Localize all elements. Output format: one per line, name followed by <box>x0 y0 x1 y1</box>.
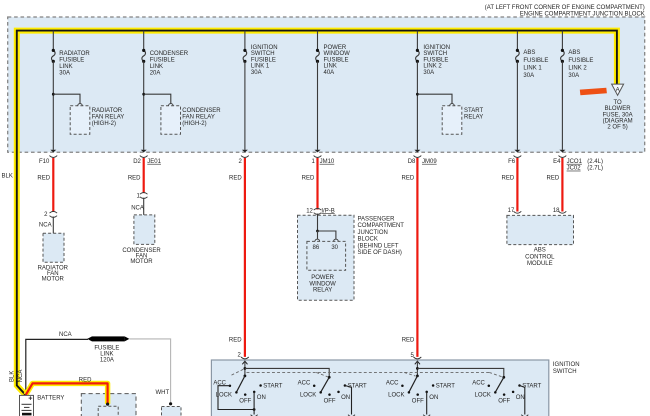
svg-text:(HIGH-2): (HIGH-2) <box>182 121 206 127</box>
svg-text:2: 2 <box>238 353 242 359</box>
svg-text:FUSE, 30A: FUSE, 30A <box>603 112 633 118</box>
svg-text:RED: RED <box>302 175 315 181</box>
svg-text:FUSIBLE: FUSIBLE <box>150 57 175 63</box>
svg-text:RED: RED <box>502 175 515 181</box>
svg-text:TO: TO <box>613 100 622 106</box>
svg-text:POWER: POWER <box>311 275 334 281</box>
svg-text:D2: D2 <box>133 159 141 165</box>
svg-text:1: 1 <box>136 194 140 200</box>
svg-text:CONDENSER: CONDENSER <box>150 51 189 57</box>
svg-text:JCO1: JCO1 <box>567 159 583 165</box>
svg-text:ABS: ABS <box>568 50 580 56</box>
svg-text:F6: F6 <box>508 159 516 165</box>
svg-text:LOCK: LOCK <box>475 392 491 398</box>
svg-text:E4: E4 <box>553 159 561 165</box>
svg-text:RED: RED <box>547 175 560 181</box>
svg-text:(BEHIND LEFT: (BEHIND LEFT <box>358 243 399 249</box>
svg-text:POWER: POWER <box>324 45 347 51</box>
svg-text:(HIGH-2): (HIGH-2) <box>92 121 116 127</box>
svg-text:BLK: BLK <box>9 371 15 382</box>
svg-text:2: 2 <box>44 212 48 218</box>
svg-text:FAN RELAY: FAN RELAY <box>182 114 215 120</box>
svg-text:ACC: ACC <box>472 380 485 386</box>
svg-text:LINK 2: LINK 2 <box>568 65 587 71</box>
svg-text:FUSIBLE: FUSIBLE <box>568 58 593 64</box>
svg-text:WHT: WHT <box>156 390 170 396</box>
svg-text:JUNCTION: JUNCTION <box>358 230 388 236</box>
svg-text:JE01: JE01 <box>147 159 161 165</box>
svg-text:RED: RED <box>402 175 415 181</box>
svg-text:(2.7L): (2.7L) <box>587 166 603 172</box>
svg-text:RED: RED <box>79 377 92 383</box>
svg-text:D8: D8 <box>408 159 416 165</box>
svg-text:ON: ON <box>516 395 525 401</box>
svg-text:RED: RED <box>402 338 415 344</box>
svg-text:A: A <box>616 87 620 93</box>
svg-text:I/P-B: I/P-B <box>321 208 334 214</box>
svg-text:LINK 1: LINK 1 <box>251 64 270 70</box>
svg-text:ACC: ACC <box>386 380 399 386</box>
svg-text:18: 18 <box>553 208 560 214</box>
svg-text:FUSIBLE: FUSIBLE <box>251 57 276 63</box>
svg-text:NCA: NCA <box>39 223 52 229</box>
svg-text:SIDE OF DASH): SIDE OF DASH) <box>358 250 402 256</box>
svg-text:RELAY: RELAY <box>464 114 483 120</box>
svg-text:(DIAGRAM: (DIAGRAM <box>603 119 633 125</box>
svg-text:LINK 1: LINK 1 <box>523 65 542 71</box>
svg-text:LINK: LINK <box>150 64 163 70</box>
svg-text:ABS: ABS <box>523 50 535 56</box>
svg-text:BATTERY: BATTERY <box>37 396 64 402</box>
svg-text:CONTROL: CONTROL <box>525 254 555 260</box>
svg-text:BLOCK: BLOCK <box>358 237 378 243</box>
svg-text:MODULE: MODULE <box>527 261 553 267</box>
svg-text:SWITCH: SWITCH <box>251 51 275 57</box>
svg-text:OFF: OFF <box>324 398 336 404</box>
svg-text:ABS: ABS <box>534 248 546 254</box>
svg-text:NCA: NCA <box>131 205 144 211</box>
svg-text:WINDOW: WINDOW <box>324 51 351 57</box>
svg-text:LOCK: LOCK <box>300 392 316 398</box>
svg-text:SWITCH: SWITCH <box>423 51 447 57</box>
svg-text:PASSENGER: PASSENGER <box>358 217 396 223</box>
svg-text:(2.4L): (2.4L) <box>587 159 603 165</box>
svg-text:2: 2 <box>239 159 243 165</box>
svg-text:START: START <box>348 383 367 389</box>
svg-text:IGNITION: IGNITION <box>251 45 278 51</box>
svg-text:86: 86 <box>313 245 320 251</box>
svg-text:BLK: BLK <box>2 173 13 179</box>
svg-text:ON: ON <box>341 395 350 401</box>
svg-text:ENGINE COMPARTMENT JUNCTION BL: ENGINE COMPARTMENT JUNCTION BLOCK <box>520 11 645 17</box>
svg-text:120A: 120A <box>100 358 114 364</box>
svg-text:30A: 30A <box>568 73 579 79</box>
svg-text:30A: 30A <box>251 70 262 76</box>
svg-text:BLOWER: BLOWER <box>605 106 632 112</box>
svg-text:FAN RELAY: FAN RELAY <box>92 114 125 120</box>
svg-text:RED: RED <box>128 175 141 181</box>
svg-text:17: 17 <box>508 208 515 214</box>
svg-text:ACC: ACC <box>298 380 311 386</box>
svg-text:LINK 2: LINK 2 <box>423 64 442 70</box>
svg-text:30A: 30A <box>59 70 70 76</box>
svg-text:12: 12 <box>306 208 313 214</box>
svg-text:RED: RED <box>229 338 242 344</box>
svg-text:30A: 30A <box>523 73 534 79</box>
svg-text:SWITCH: SWITCH <box>553 369 577 375</box>
svg-text:START: START <box>464 108 483 114</box>
svg-text:COMPARTMENT: COMPARTMENT <box>358 223 405 229</box>
svg-text:LOCK: LOCK <box>388 392 404 398</box>
svg-text:2 OF 5): 2 OF 5) <box>607 125 627 131</box>
svg-text:RED: RED <box>229 175 242 181</box>
svg-text:FUSIBLE: FUSIBLE <box>423 57 448 63</box>
svg-text:NCA: NCA <box>18 370 24 383</box>
svg-text:OFF: OFF <box>239 398 251 404</box>
svg-text:JC02: JC02 <box>567 166 582 172</box>
svg-text:30: 30 <box>331 245 338 251</box>
svg-text:RED: RED <box>37 175 50 181</box>
svg-text:IGNITION: IGNITION <box>423 45 450 51</box>
svg-text:FUSIBLE: FUSIBLE <box>59 57 84 63</box>
svg-text:(AT LEFT FRONT CORNER OF ENGIN: (AT LEFT FRONT CORNER OF ENGINE COMPARTM… <box>485 5 645 11</box>
svg-text:RADIATOR: RADIATOR <box>59 51 90 57</box>
svg-text:1: 1 <box>311 159 315 165</box>
svg-text:ON: ON <box>429 395 438 401</box>
svg-text:FUSIBLE: FUSIBLE <box>523 58 548 64</box>
svg-text:OFF: OFF <box>498 398 510 404</box>
svg-text:MOTOR: MOTOR <box>42 276 65 282</box>
svg-text:IGNITION: IGNITION <box>553 362 580 368</box>
svg-text:OFF: OFF <box>412 398 424 404</box>
svg-text:RELAY: RELAY <box>313 288 332 294</box>
svg-text:F10: F10 <box>39 159 50 165</box>
svg-text:NCA: NCA <box>59 332 72 338</box>
svg-text:LINK: LINK <box>59 64 72 70</box>
svg-text:JM09: JM09 <box>422 159 437 165</box>
svg-text:MOTOR: MOTOR <box>130 259 153 265</box>
svg-text:40A: 40A <box>324 70 335 76</box>
svg-text:LINK: LINK <box>324 64 337 70</box>
svg-text:CONDENSER: CONDENSER <box>182 108 221 114</box>
svg-text:30A: 30A <box>423 70 434 76</box>
svg-text:WINDOW: WINDOW <box>309 281 336 287</box>
svg-text:START: START <box>436 383 455 389</box>
svg-text:ON: ON <box>257 395 266 401</box>
svg-text:JM10: JM10 <box>320 159 335 165</box>
svg-text:START: START <box>263 383 282 389</box>
svg-text:20A: 20A <box>150 70 161 76</box>
svg-text:FUSIBLE: FUSIBLE <box>324 57 349 63</box>
svg-text:RADIATOR: RADIATOR <box>92 108 123 114</box>
